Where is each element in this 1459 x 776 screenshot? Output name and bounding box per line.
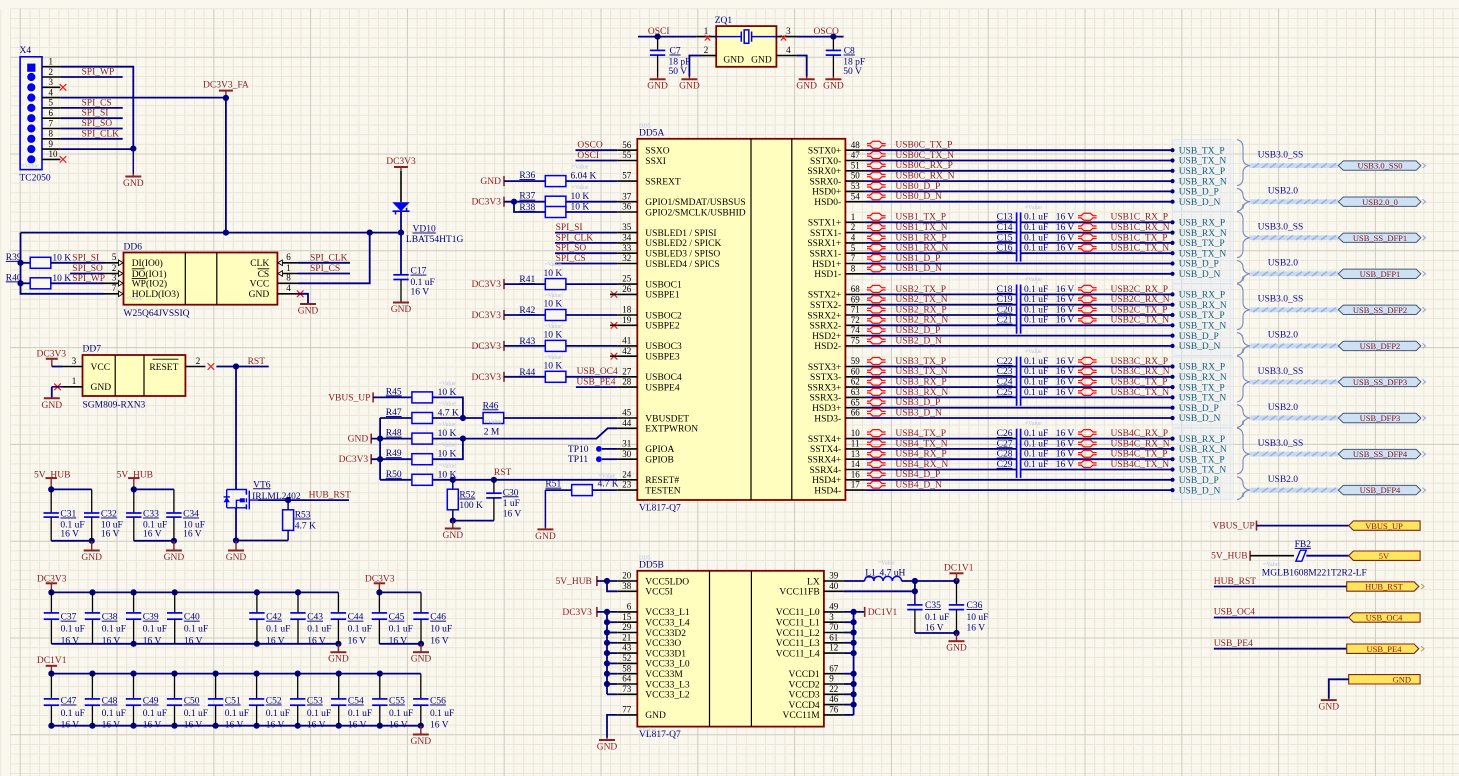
- pin 74 DD5A HSD2+: [845, 335, 865, 337]
- capacitor C49: [133, 674, 135, 699]
- svg-text:DC3V3_FA: DC3V3_FA: [203, 81, 249, 91]
- svg-text:USB4_TX_P: USB4_TX_P: [895, 429, 946, 439]
- svg-text:0.1 uF: 0.1 uF: [307, 709, 331, 719]
- wire SPI_WP: [60, 76, 122, 78]
- pin 4 X4: [42, 97, 60, 99]
- diff pair marker USB0C_RX_N: [867, 172, 886, 179]
- svg-text:USB2C_TX_P: USB2C_TX_P: [1111, 305, 1168, 315]
- svg-text:GND: GND: [1393, 675, 1411, 685]
- svg-text:SSTX4+: SSTX4+: [808, 435, 841, 445]
- svg-text:USB_TX_N: USB_TX_N: [1179, 249, 1227, 259]
- port USB_DFP2: [1338, 341, 1421, 350]
- wire USB0_D_P: [865, 190, 1172, 192]
- ground C36: [956, 633, 958, 641]
- svg-text:0.1 uF: 0.1 uF: [430, 709, 454, 719]
- pin 72 DD5A SSRX2-: [845, 324, 865, 326]
- resistor R50: [380, 479, 411, 481]
- svg-text:18 pF: 18 pF: [669, 57, 691, 67]
- svg-text:16 V: 16 V: [1056, 213, 1075, 223]
- svg-text:36: 36: [622, 202, 632, 212]
- capacitor C40: [174, 592, 176, 613]
- svg-text:16 V: 16 V: [184, 636, 203, 646]
- wire SPI_CLK at DD6: [297, 262, 350, 264]
- svg-text:SSRX1-: SSRX1-: [810, 250, 842, 260]
- diff pair marker USB0C_TX_N: [867, 152, 886, 159]
- svg-text:16 V: 16 V: [348, 720, 367, 730]
- svg-text:11: 11: [851, 439, 860, 449]
- svg-text:2: 2: [49, 67, 54, 77]
- svg-text:DD5: DD5: [639, 556, 651, 562]
- harness cable USB2.0 group 4: [1250, 488, 1338, 493]
- capacitor C17: [393, 274, 408, 276]
- svg-text:GND: GND: [647, 82, 668, 92]
- svg-text:USB_RX_P: USB_RX_P: [1179, 435, 1225, 445]
- svg-text:73: 73: [622, 684, 632, 694]
- pin 32 DD5A USBLED4 / SPICS: [617, 263, 637, 265]
- harness brace USB2.0 group 3: [1237, 405, 1250, 428]
- harness connector group 4: [1173, 428, 1234, 500]
- connector X4: [20, 57, 42, 170]
- svg-text:3: 3: [829, 612, 834, 622]
- wire VCC11FB: [844, 590, 915, 592]
- svg-text:16 V: 16 V: [389, 636, 408, 646]
- svg-text:56: 56: [622, 140, 632, 150]
- harness brace USB3.0_SS group 3: [1237, 356, 1250, 402]
- diff pair marker USB1_RX_P: [867, 234, 886, 241]
- pin 69 DD5A SSTX2-: [845, 304, 865, 306]
- svg-text:C7: C7: [670, 47, 681, 57]
- port USB_SS_DFP2: [1338, 305, 1421, 314]
- svg-text:VCC11_L3: VCC11_L3: [776, 639, 820, 649]
- svg-text:USB_DFP3: USB_DFP3: [1360, 413, 1401, 423]
- svg-text:SPI_SI: SPI_SI: [72, 253, 99, 263]
- capacitors C22-C25: [1016, 357, 1018, 406]
- svg-text:USB_D_N: USB_D_N: [1179, 342, 1221, 352]
- svg-text:USB_TX_N: USB_TX_N: [1179, 466, 1227, 476]
- svg-text:USB_TX_P: USB_TX_P: [1179, 383, 1225, 393]
- svg-text:C36: C36: [967, 601, 983, 611]
- net label SPI_CLK at DD5A: [555, 242, 617, 244]
- port USB_DFP1: [1338, 269, 1421, 278]
- svg-text:USB_RX_N: USB_RX_N: [1179, 445, 1227, 455]
- pin 52 DD5B VCC33_L0: [617, 662, 637, 664]
- harness cable USB2.0 group 0: [1250, 199, 1338, 204]
- svg-text:C48: C48: [102, 697, 118, 707]
- pin 31 DD5A GPIOA: [617, 448, 637, 450]
- svg-text:0.1 uF: 0.1 uF: [143, 625, 167, 635]
- svg-text:USB3.0_SS: USB3.0_SS: [1258, 295, 1304, 305]
- svg-text:USB4_RX_P: USB4_RX_P: [895, 450, 946, 460]
- svg-text:C55: C55: [389, 697, 405, 707]
- diff pair marker USB1_TX_N: [867, 224, 886, 231]
- capacitor C50: [174, 674, 176, 699]
- svg-text:C34: C34: [183, 510, 199, 520]
- svg-text:71: 71: [851, 305, 860, 315]
- svg-text:VCC: VCC: [250, 280, 270, 290]
- diff pair marker USB4_TX_P: [867, 430, 886, 437]
- svg-text:USB3.0_SS: USB3.0_SS: [1258, 150, 1304, 160]
- svg-text:USB_TX_P: USB_TX_P: [1179, 311, 1225, 321]
- svg-text:10 K: 10 K: [438, 450, 457, 460]
- svg-text:HSD1+: HSD1+: [812, 260, 841, 270]
- svg-text:0.1 uF: 0.1 uF: [307, 625, 331, 635]
- capacitor C31: [50, 489, 52, 513]
- svg-text:USB2_RX_P: USB2_RX_P: [895, 305, 946, 315]
- wire SPI_SO: [60, 128, 122, 130]
- power port DC1V1 at pin49: [844, 611, 865, 613]
- svg-text:16 V: 16 V: [1056, 244, 1075, 254]
- wire USB3_TX_N: [865, 376, 1016, 378]
- no-ERC DD7 pin2: [208, 364, 214, 370]
- wire VBUS_UP: [1257, 525, 1349, 527]
- svg-text:GND: GND: [348, 435, 369, 445]
- wire DC1V1 bank top rail: [51, 673, 420, 675]
- svg-text:USB3_RX_P: USB3_RX_P: [895, 378, 946, 388]
- svg-text:3: 3: [72, 356, 77, 366]
- diff pair marker USB4_RX_P: [867, 450, 886, 457]
- net label SPI_CS at DD5A: [555, 263, 617, 265]
- pin 63 DD5A SSRX3-: [845, 396, 865, 398]
- svg-text:16 V: 16 V: [1056, 305, 1075, 315]
- svg-text:VCC33D2: VCC33D2: [645, 629, 686, 639]
- svg-text:1: 1: [286, 263, 291, 273]
- svg-text:GND: GND: [328, 655, 349, 665]
- svg-text:HSD2-: HSD2-: [814, 342, 841, 352]
- svg-text:SSRX0-: SSRX0-: [810, 177, 842, 187]
- capacitor C34: [173, 489, 175, 513]
- ground cap pair: [173, 541, 175, 551]
- pin 5 DD5A SSRX1-: [845, 252, 865, 254]
- svg-text:USBLED2 / SPICK: USBLED2 / SPICK: [645, 239, 721, 249]
- harness cable USB3.0_SS group 0: [1250, 163, 1338, 168]
- harness entry USB_TX_N: [1170, 323, 1174, 327]
- svg-text:USB_SS_DFP3: USB_SS_DFP3: [1353, 377, 1407, 387]
- diff pair marker USB2_RX_P: [867, 306, 886, 313]
- power port DC3V3 at R44: [503, 372, 505, 382]
- svg-text:16 V: 16 V: [411, 288, 430, 298]
- diff pair marker USB4_TX_N: [867, 440, 886, 447]
- wire VT6 bottom rail: [236, 540, 288, 542]
- diff pair marker 2 post 2: [1078, 306, 1097, 313]
- ground R51: [544, 490, 546, 528]
- wire OSCO at crystal: [797, 36, 844, 38]
- diff pair marker USB0_D_P: [867, 182, 886, 189]
- svg-text:R36: R36: [519, 171, 535, 181]
- svg-text:SSRX3+: SSRX3+: [807, 383, 841, 393]
- svg-text:SPI_CLK: SPI_CLK: [556, 233, 594, 243]
- svg-text:USBPE2: USBPE2: [645, 322, 680, 332]
- svg-text:SPI_CLK: SPI_CLK: [82, 129, 120, 139]
- pin 5 DD6 DI(IO0): [104, 262, 124, 264]
- svg-text:SSRX2+: SSRX2+: [807, 311, 841, 321]
- pin 1 DD6 CS: [277, 273, 297, 275]
- svg-text:SSXO: SSXO: [645, 147, 669, 157]
- harness cable USB3.0_SS group 2: [1250, 307, 1338, 312]
- resistor R36: [504, 180, 546, 182]
- svg-text:GND: GND: [411, 655, 432, 665]
- svg-text:C18: C18: [997, 285, 1013, 295]
- svg-text:10 uF: 10 uF: [430, 625, 452, 635]
- svg-text:USB3.0_SS: USB3.0_SS: [1258, 439, 1304, 449]
- svg-text:GPIOB: GPIOB: [645, 456, 674, 466]
- svg-text:=Value: =Value: [439, 443, 456, 449]
- port USB_SS_DFP3: [1338, 377, 1421, 386]
- svg-text:DC3V3: DC3V3: [471, 280, 501, 290]
- diff pair marker USB2_RX_N: [867, 316, 886, 323]
- svg-text:4.7 K: 4.7 K: [295, 521, 316, 531]
- svg-text:USB_SS_DFP1: USB_SS_DFP1: [1353, 233, 1407, 243]
- svg-text:8: 8: [851, 263, 856, 273]
- diff pair marker 4 post 2: [1078, 450, 1097, 457]
- pin 2 DD5A SSTX1-: [845, 232, 865, 234]
- svg-text:GND: GND: [535, 532, 556, 542]
- wire cap top rail: [134, 488, 174, 490]
- svg-text:USB_RX_P: USB_RX_P: [1179, 167, 1225, 177]
- pin 68 DD5A SSTX2+: [845, 293, 865, 295]
- capacitor C42: [256, 592, 258, 613]
- pin 1 DD7 GND: [63, 386, 83, 388]
- ground DC3V3 bank 2: [420, 644, 422, 652]
- svg-text:R48: R48: [386, 429, 402, 439]
- svg-text:C24: C24: [997, 378, 1013, 388]
- svg-text:9: 9: [829, 674, 834, 684]
- svg-text:USB2C_RX_N: USB2C_RX_N: [1111, 295, 1170, 305]
- svg-text:10 K: 10 K: [52, 253, 71, 263]
- svg-text:16 V: 16 V: [1056, 295, 1075, 305]
- capacitor C55: [379, 674, 381, 699]
- resistor R46: [463, 417, 483, 419]
- pin 8 DD6 VCC: [277, 282, 297, 284]
- svg-text:USBPE1: USBPE1: [645, 291, 680, 301]
- svg-text:0.1 uF: 0.1 uF: [348, 625, 372, 635]
- svg-text:69: 69: [851, 294, 861, 304]
- svg-text:16 V: 16 V: [60, 530, 79, 540]
- no-ERC USBPE pin: [611, 353, 617, 359]
- svg-text:DC3V3: DC3V3: [471, 198, 501, 208]
- svg-text:HUB_RST: HUB_RST: [309, 491, 351, 501]
- svg-text:HSD4+: HSD4+: [812, 476, 841, 486]
- svg-text:USB3.0_SS: USB3.0_SS: [1258, 223, 1304, 233]
- svg-text:0.1 uF: 0.1 uF: [411, 278, 435, 288]
- svg-text:USB1_D_P: USB1_D_P: [895, 254, 940, 264]
- pin 3 X4: [42, 86, 60, 88]
- svg-text:=Value: =Value: [545, 355, 562, 361]
- wire SPI_CLK: [60, 138, 122, 140]
- svg-text:0.1 uF: 0.1 uF: [1024, 450, 1048, 460]
- svg-text:0.1 uF: 0.1 uF: [1024, 316, 1048, 326]
- svg-text:12: 12: [829, 643, 838, 653]
- svg-text:5V_HUB: 5V_HUB: [1211, 552, 1247, 562]
- svg-text:16 V: 16 V: [389, 720, 408, 730]
- svg-text:16 V: 16 V: [1056, 439, 1075, 449]
- svg-text:USB_D_N: USB_D_N: [1179, 270, 1221, 280]
- svg-text:GND: GND: [751, 56, 772, 66]
- svg-text:16 V: 16 V: [266, 720, 285, 730]
- svg-text:USBPE4: USBPE4: [645, 383, 680, 393]
- harness cable USB3.0_SS group 3: [1250, 380, 1338, 385]
- svg-text:USB_SS_DFP4: USB_SS_DFP4: [1353, 449, 1408, 459]
- svg-text:29: 29: [622, 622, 632, 632]
- svg-text:RST: RST: [494, 468, 512, 478]
- svg-text:6.04 K: 6.04 K: [571, 172, 597, 182]
- svg-text:4.7 K: 4.7 K: [598, 480, 619, 490]
- svg-text:SSTX1+: SSTX1+: [808, 219, 841, 229]
- resistor R44: [504, 376, 546, 378]
- svg-text:USB_SS_DFP2: USB_SS_DFP2: [1353, 305, 1407, 315]
- port 5V: [1349, 551, 1420, 560]
- svg-text:L1: L1: [865, 569, 876, 579]
- svg-text:GND: GND: [226, 553, 247, 563]
- wire DC3V3 bank2 rails: [379, 591, 421, 593]
- power port DC3V3_FA: [225, 91, 227, 98]
- svg-text:1: 1: [851, 212, 856, 222]
- svg-text:16 V: 16 V: [430, 636, 449, 646]
- svg-text:USBOC4: USBOC4: [645, 373, 682, 383]
- no-ERC pin3 X4: [60, 84, 66, 90]
- svg-text:39: 39: [829, 571, 839, 581]
- svg-text:=Value: =Value: [439, 463, 456, 469]
- wire DC3V3 rail: [21, 232, 402, 234]
- svg-text:VBUS_UP: VBUS_UP: [328, 393, 370, 403]
- wire USB1_RX_P: [865, 242, 1016, 244]
- svg-text:GND: GND: [164, 553, 185, 563]
- capacitor C39: [133, 592, 135, 613]
- svg-text:5: 5: [851, 243, 856, 253]
- diode VD10 LBAT54HT1G: [392, 202, 409, 211]
- pin 24 DD5A RESET#: [617, 479, 637, 481]
- svg-text:16: 16: [851, 469, 861, 479]
- svg-text:USB_DFP4: USB_DFP4: [1360, 485, 1401, 495]
- svg-text:5: 5: [49, 98, 54, 108]
- pin 49 DD5B VCC11_L0: [824, 611, 844, 613]
- svg-text:USB_PE4: USB_PE4: [1214, 639, 1253, 649]
- harness brace USB3.0_SS group 2: [1237, 284, 1250, 330]
- wire DC3V3_FA vertical: [225, 98, 227, 233]
- harness cable USB2.0 group 2: [1250, 344, 1338, 349]
- svg-text:SPI_SO: SPI_SO: [72, 264, 103, 274]
- svg-text:=Value: =Value: [545, 293, 562, 299]
- svg-text:CS: CS: [258, 270, 270, 280]
- wire rail left drop: [21, 233, 104, 294]
- svg-text:10 K: 10 K: [544, 300, 563, 310]
- svg-text:SSTX0-: SSTX0-: [810, 157, 841, 167]
- svg-text:DC3V3: DC3V3: [471, 311, 501, 321]
- svg-text:USB_RX_P: USB_RX_P: [1179, 291, 1225, 301]
- svg-text:C16: C16: [997, 244, 1013, 254]
- svg-text:USB3_TX_N: USB3_TX_N: [895, 367, 947, 377]
- harness cable USB2.0 group 3: [1250, 416, 1338, 421]
- svg-text:USB_TX_P: USB_TX_P: [1179, 239, 1225, 249]
- svg-text:C30: C30: [503, 488, 519, 498]
- svg-text:C42: C42: [266, 613, 282, 623]
- svg-text:VCC33O: VCC33O: [645, 639, 681, 649]
- svg-text:1 uF: 1 uF: [503, 499, 520, 509]
- svg-text:10 K: 10 K: [52, 274, 71, 284]
- svg-text:16 V: 16 V: [101, 530, 120, 540]
- svg-text:GND: GND: [796, 82, 817, 92]
- ground VT6: [235, 541, 237, 551]
- capacitor C44: [337, 592, 339, 613]
- pin 56 DD5A SSXO: [617, 149, 637, 151]
- wire SPI_CS at DD6: [297, 273, 350, 275]
- resistor R41: [504, 283, 546, 285]
- svg-text:DD7: DD7: [83, 345, 102, 355]
- power port GND at R48: [370, 434, 372, 444]
- svg-text:C56: C56: [430, 697, 446, 707]
- svg-text:USB_RX_P: USB_RX_P: [1179, 219, 1225, 229]
- capacitor C56: [420, 674, 422, 699]
- svg-text:USBOC3: USBOC3: [645, 342, 682, 352]
- svg-text:10 K: 10 K: [544, 269, 563, 279]
- svg-text:VCCD1: VCCD1: [789, 670, 820, 680]
- svg-text:C45: C45: [389, 613, 405, 623]
- svg-text:16 V: 16 V: [1056, 460, 1075, 470]
- pin 1 ZQ1: [696, 36, 716, 38]
- wire X4 pin1 to GND: [60, 67, 133, 149]
- svg-text:GND: GND: [123, 179, 144, 189]
- wire diode to C17: [400, 211, 402, 275]
- svg-text:0.1 uF: 0.1 uF: [1024, 244, 1048, 254]
- svg-text:16 V: 16 V: [307, 720, 326, 730]
- svg-text:USB0C_TX_P: USB0C_TX_P: [895, 141, 952, 151]
- diff pair marker USB3_RX_N: [867, 388, 886, 395]
- svg-text:USB0_D_N: USB0_D_N: [895, 192, 942, 202]
- svg-text:=Value: =Value: [572, 185, 589, 191]
- no-ERC USBPE pin: [611, 291, 617, 297]
- svg-text:VCC11_L4: VCC11_L4: [776, 649, 820, 659]
- svg-text:62: 62: [851, 377, 860, 387]
- svg-text:USB1C_RX_P: USB1C_RX_P: [1111, 213, 1169, 223]
- svg-text:HUB_RST: HUB_RST: [1214, 577, 1256, 587]
- svg-text:C53: C53: [307, 697, 323, 707]
- harness brace USB2.0 group 0: [1237, 188, 1250, 211]
- pin 66 DD5A HSD3-: [845, 417, 865, 419]
- svg-text:C40: C40: [184, 613, 200, 623]
- harness entry USB_D_N: [1170, 416, 1174, 420]
- harness entry USB_TX_P: [1170, 457, 1174, 461]
- svg-text:GND: GND: [723, 56, 744, 66]
- svg-text:USB_TX_P: USB_TX_P: [1179, 146, 1225, 156]
- capacitor C54: [338, 674, 340, 699]
- svg-text:0.1 uF: 0.1 uF: [225, 709, 249, 719]
- IC DD5B VL817-Q7: [637, 571, 824, 727]
- svg-text:R38: R38: [519, 203, 535, 213]
- pin 7 DD5A HSD1+: [845, 263, 865, 265]
- resistor R48: [371, 438, 411, 440]
- wire GND port: [1329, 679, 1349, 698]
- pin 6 DD5B VCC33_L1: [617, 611, 637, 613]
- svg-text:VCC11_L1: VCC11_L1: [776, 619, 820, 629]
- svg-text:USB3_TX_P: USB3_TX_P: [895, 357, 946, 367]
- svg-text:GND: GND: [480, 177, 501, 187]
- capacitor C33: [133, 489, 135, 513]
- svg-text:GND: GND: [679, 82, 700, 92]
- power port DC3V3 at VD10: [400, 167, 402, 171]
- svg-text:4.7 K: 4.7 K: [438, 409, 459, 419]
- harness entry USB_D_P: [1170, 406, 1174, 410]
- ferrite bead FB2: [1250, 555, 1294, 557]
- svg-text:R46: R46: [483, 401, 499, 411]
- diff pair marker 1 post 2: [1078, 234, 1097, 241]
- svg-text:50: 50: [851, 171, 861, 181]
- svg-text:GND: GND: [42, 401, 63, 411]
- pin 71 DD5A SSRX2+: [845, 314, 865, 316]
- svg-text:USB2_RX_N: USB2_RX_N: [895, 316, 948, 326]
- svg-text:RST: RST: [248, 357, 266, 367]
- svg-text:35: 35: [622, 222, 632, 232]
- svg-text:C37: C37: [61, 613, 77, 623]
- svg-text:USB_OC4: USB_OC4: [1366, 613, 1404, 623]
